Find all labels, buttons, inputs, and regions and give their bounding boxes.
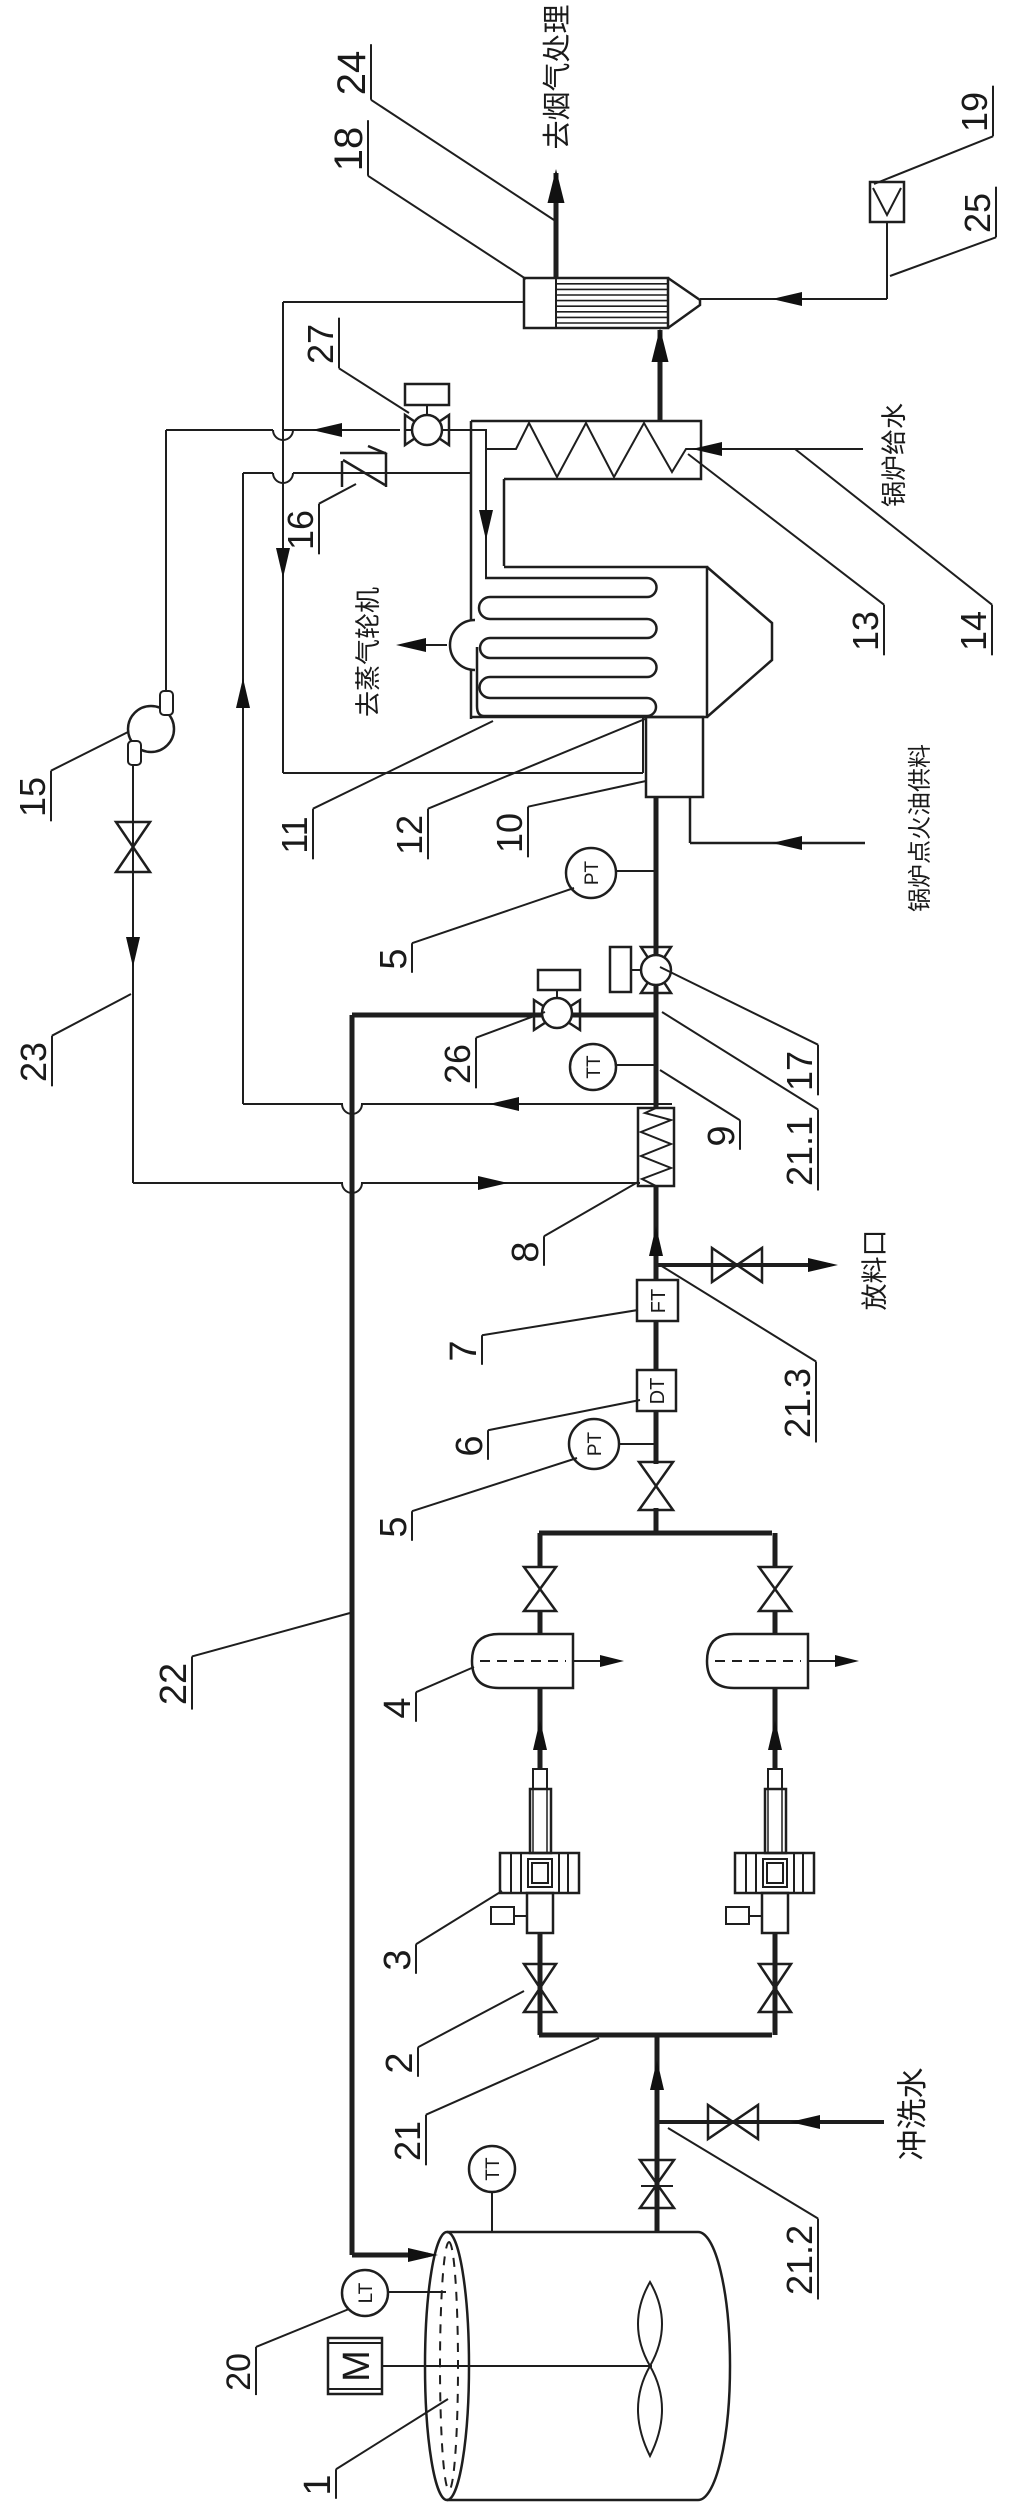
flue gas outlet line 24 xyxy=(554,173,559,278)
branch discharge line xyxy=(773,1688,778,1769)
pulsation dampener 4 dome xyxy=(472,1634,573,1688)
temperature transmitter TT 9 xyxy=(570,1044,616,1090)
main line flow arrow before drain xyxy=(649,1226,663,1256)
svg-text:24: 24 xyxy=(330,51,374,96)
svg-text:11: 11 xyxy=(274,816,315,853)
svg-text:PT: PT xyxy=(585,1431,606,1456)
pipe jump over air duct xyxy=(273,473,293,483)
tank 1 vertical mixing tank shell xyxy=(447,2232,730,2500)
boiler ash hopper xyxy=(707,567,772,717)
tank 1 inner dashed rim xyxy=(440,2242,458,2490)
valve 27 actuator xyxy=(426,405,428,415)
pump suction header xyxy=(539,2033,772,2038)
svg-text:LT: LT xyxy=(356,2282,377,2303)
main line valve to HX8 xyxy=(654,1186,659,1464)
svg-text:15: 15 xyxy=(12,777,53,817)
svg-text:21.3: 21.3 xyxy=(777,1368,818,1438)
boiler top line continuous to economizer xyxy=(470,421,473,719)
control valve 27 body xyxy=(405,415,427,445)
pump 3 coupling block xyxy=(500,1853,579,1893)
pump 15 discharge line to valve 23 xyxy=(132,765,134,1183)
pulsation dampener 4 dome xyxy=(707,1634,808,1688)
hot air duct drop leg xyxy=(283,772,643,774)
svg-text:TT: TT xyxy=(584,1055,605,1079)
return line A drop to economizer xyxy=(243,472,273,474)
pump 3 discharge taper xyxy=(533,1769,547,1789)
branch isolation valve 2 xyxy=(759,1988,791,2012)
control valve 17 body xyxy=(641,970,671,993)
pipe jump over line 22 xyxy=(342,1183,362,1193)
ignition oil text 锅炉点火油供料 xyxy=(908,889,930,911)
economizer duct bottom wall xyxy=(503,479,506,566)
steam return line A from HX8 xyxy=(361,1103,672,1105)
svg-text:13: 13 xyxy=(845,611,886,651)
svg-text:10: 10 xyxy=(489,813,530,853)
feedwater arrow into boiler xyxy=(479,510,493,540)
svg-text:26: 26 xyxy=(437,1044,478,1084)
drain valve xyxy=(712,1248,737,1282)
svg-text:5: 5 xyxy=(373,948,415,969)
flushing water branch line xyxy=(657,2120,884,2124)
circulating pump 15 xyxy=(128,706,174,752)
main line shutoff valve xyxy=(639,1486,673,1510)
main process line from tank to pump header xyxy=(655,2035,660,2232)
branch discharge line xyxy=(538,1688,543,1769)
svg-text:16: 16 xyxy=(280,510,321,550)
control valve 26 body xyxy=(534,1000,557,1030)
svg-text:18: 18 xyxy=(327,127,371,172)
level transmitter LT 20 xyxy=(342,2270,388,2316)
flow arrow up from HX8 xyxy=(489,1097,519,1111)
boiler 11 12 furnace shell xyxy=(471,567,707,717)
agitator motor M box 20 xyxy=(328,2338,382,2394)
pump 3 screw body xyxy=(765,1789,786,1853)
drain branch 21.3 to discharge port xyxy=(656,1263,830,1267)
flow arrow toward check valve xyxy=(236,678,250,708)
valve 23 xyxy=(116,847,150,872)
flow arrow down into HX8 xyxy=(478,1176,508,1190)
pump seal stub box xyxy=(726,1907,749,1924)
svg-text:21.2: 21.2 xyxy=(779,2225,820,2295)
TT tank tap line xyxy=(491,2192,493,2231)
branch isolation valve 2 xyxy=(524,1988,556,2012)
branch line to discharge header xyxy=(773,1533,778,1567)
screw pump 3 inlet casing xyxy=(527,1893,553,1933)
svg-text:21.1: 21.1 xyxy=(779,1116,820,1186)
LT tap line xyxy=(388,2291,446,2293)
tank 1 top rim ellipse xyxy=(425,2232,469,2500)
heat exchanger 8 shell xyxy=(638,1108,674,1186)
flow arrow toward HX8 xyxy=(126,937,140,967)
flushing water valve xyxy=(708,2105,733,2139)
economizer box xyxy=(471,421,701,479)
screw pump 3 inlet casing xyxy=(762,1893,788,1933)
pump discharge header xyxy=(539,1531,772,1536)
svg-text:17: 17 xyxy=(779,1051,820,1091)
hot air flow arrow xyxy=(276,548,290,578)
air fan box 19 xyxy=(870,182,904,222)
air preheater bottom cone xyxy=(668,278,700,328)
pump 3 discharge taper xyxy=(768,1769,782,1789)
svg-text:8: 8 xyxy=(505,1241,547,1262)
economizer outlet to valve 27 line xyxy=(406,429,487,431)
steam turbine text 去蒸气轮机 xyxy=(355,692,379,715)
temperature transmitter TT on tank xyxy=(469,2146,515,2192)
steam drum dome xyxy=(450,620,475,670)
pressure transmitter PT 5 xyxy=(569,1419,619,1469)
dampener drain arrow xyxy=(573,1660,618,1662)
svg-text:19: 19 xyxy=(954,92,995,132)
flow transmitter FT 7 xyxy=(637,1280,678,1321)
heat exchanger 8 coil zigzag xyxy=(641,1108,671,1186)
ignition oil line xyxy=(689,797,692,843)
flue gas treatment text 去烟气处理 xyxy=(543,122,569,148)
main line HX8 to burner xyxy=(654,797,659,1108)
dampener line through xyxy=(538,1611,543,1634)
agitator shaft xyxy=(381,2365,652,2367)
branch outlet valve xyxy=(524,1589,556,1611)
branch outlet valve xyxy=(759,1589,791,1611)
upper branch suction line xyxy=(538,1933,543,2035)
flushing water text 冲洗水 xyxy=(897,2132,925,2160)
svg-text:7: 7 xyxy=(443,1340,485,1361)
burner box 10 xyxy=(646,717,703,797)
check valve 16 xyxy=(340,452,386,455)
pump seal stub box xyxy=(491,1907,514,1924)
svg-text:22: 22 xyxy=(153,1663,195,1705)
recirculation line 22 horizontal run xyxy=(350,1015,355,2255)
svg-text:TT: TT xyxy=(483,2157,504,2181)
discharge port text 放料口 xyxy=(861,1284,886,1310)
flow arrow to pump xyxy=(312,423,342,437)
svg-text:PT: PT xyxy=(582,860,603,885)
air preheater tube lines xyxy=(556,322,668,324)
recirculation line 22 vertical leg at valve 26 xyxy=(352,1013,656,1018)
agitator impeller blades xyxy=(638,2366,662,2456)
svg-text:14: 14 xyxy=(953,611,994,651)
pipe jump over line 22 xyxy=(342,1104,362,1114)
flow arrow on tank outlet line xyxy=(650,2060,664,2090)
density transmitter DT 6 xyxy=(637,1370,676,1411)
svg-text:27: 27 xyxy=(300,324,341,364)
svg-text:21: 21 xyxy=(387,2121,428,2161)
branch flow arrow xyxy=(768,1720,782,1750)
svg-text:9: 9 xyxy=(701,1125,743,1146)
pump 3 coupling block xyxy=(735,1853,814,1893)
dampener drain arrow xyxy=(808,1660,853,1662)
branch line to discharge header xyxy=(538,1533,543,1567)
svg-text:6: 6 xyxy=(449,1435,491,1456)
steam line B down to HX8 xyxy=(133,1182,343,1184)
hot air duct to boiler xyxy=(283,301,524,303)
economizer coil zigzag 13 xyxy=(487,423,700,477)
flushing water flow arrow xyxy=(790,2115,820,2129)
line to pump 15 suction xyxy=(165,430,167,692)
dampener line through xyxy=(773,1611,778,1634)
valve 17 actuator xyxy=(632,969,641,971)
svg-text:M: M xyxy=(336,2350,378,2382)
valve 26 actuator xyxy=(556,990,558,998)
air line 25 from fan to preheater xyxy=(886,222,888,299)
main line discharge header to valve xyxy=(654,1508,659,1533)
flue gas duct arrow economizer to preheater xyxy=(658,330,663,421)
svg-text:12: 12 xyxy=(389,815,430,855)
svg-text:2: 2 xyxy=(379,2052,421,2073)
air preheater 18 shell xyxy=(524,278,668,328)
svg-text:25: 25 xyxy=(957,193,998,233)
svg-text:23: 23 xyxy=(13,1042,54,1082)
boiler internal serpentine coil 11 xyxy=(477,578,657,716)
svg-text:FT: FT xyxy=(648,1289,670,1313)
svg-text:20: 20 xyxy=(220,2353,258,2391)
svg-text:4: 4 xyxy=(377,1697,419,1718)
svg-text:1: 1 xyxy=(297,2474,339,2495)
drain outlet arrow xyxy=(808,1258,838,1272)
return line A horizontal run xyxy=(242,473,244,1104)
pressure transmitter PT 5 at boiler xyxy=(566,848,616,898)
pump 3 screw body xyxy=(530,1789,551,1853)
branch flow arrow xyxy=(533,1720,547,1750)
svg-text:DT: DT xyxy=(647,1378,669,1405)
svg-text:5: 5 xyxy=(373,1516,415,1537)
pipe jump over air duct xyxy=(273,430,293,440)
svg-text:3: 3 xyxy=(377,1949,419,1970)
boiler feedwater line 锅炉给水 xyxy=(700,448,863,450)
ignition oil flow arrow xyxy=(772,836,802,850)
isolation valve 21.2 on tank outlet xyxy=(640,2184,674,2208)
feedwater internal line to drum xyxy=(485,430,487,578)
line 22 drop into tank with arrow xyxy=(352,2253,428,2258)
lower branch suction line xyxy=(773,1933,778,2035)
steam line to turbine with arrow xyxy=(402,644,447,646)
